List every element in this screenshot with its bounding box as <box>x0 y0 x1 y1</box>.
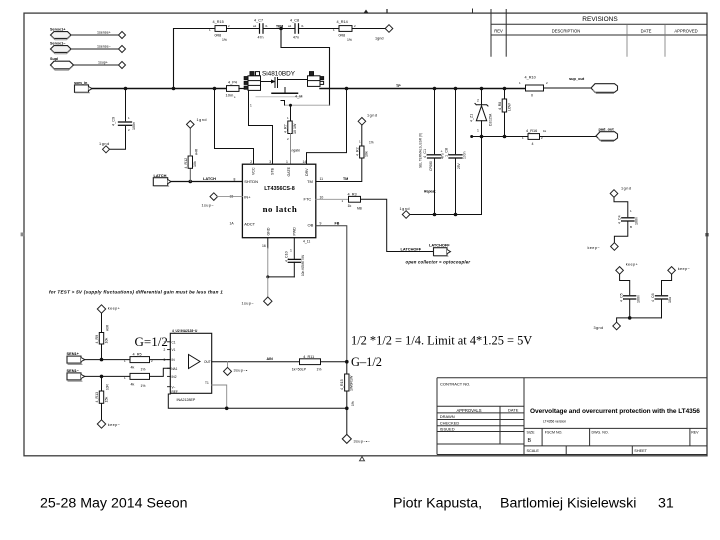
junction dot loop x226.7 <box>225 407 229 411</box>
svg-text:REV: REV <box>494 29 503 34</box>
wire ref stub right <box>212 385 227 408</box>
wire feedback loop bottom <box>168 394 346 408</box>
svg-text:4_C10: 4_C10 <box>285 251 289 262</box>
svg-text:1sup−: 1sup− <box>202 204 215 208</box>
svg-text:SHEET: SHEET <box>634 449 647 453</box>
svg-text:a1: a1 <box>253 24 257 28</box>
svg-text:1gnd: 1gnd <box>99 142 110 146</box>
svg-text:14: 14 <box>303 160 307 164</box>
svg-text:INA2128EP: INA2128EP <box>177 398 196 402</box>
svg-text:25V: 25V <box>457 162 461 169</box>
svg-text:CHECKED: CHECKED <box>440 420 460 425</box>
terminal diamond keep- right <box>668 267 691 275</box>
svg-text:4_R5: 4_R5 <box>133 352 142 356</box>
svg-text:10R: 10R <box>106 383 110 390</box>
resistor 4_R10 bus <box>519 75 548 97</box>
svg-text:LATCHOFF: LATCHOFF <box>401 246 422 251</box>
wire sense1- <box>71 48 119 50</box>
svg-text:OB: OB <box>308 223 314 228</box>
wire keep gnd rail <box>617 318 662 322</box>
svg-text:3sup−•: 3sup−• <box>234 369 248 373</box>
resistor 4_R5 <box>124 352 153 371</box>
terminal diamond keep- left <box>97 420 120 428</box>
wire supply <box>74 64 119 66</box>
wire zener to pad line and rail <box>481 121 483 215</box>
wire opamp output <box>212 361 300 363</box>
svg-text:1gnd: 1gnd <box>367 113 377 117</box>
op-amp U1 LT4356 box <box>242 164 315 238</box>
svg-text:10k: 10k <box>193 161 197 167</box>
svg-text:CONTRACT NO.: CONTRACT NO. <box>440 382 470 387</box>
transistor Q1 left pad block <box>244 72 260 91</box>
junction dot rail x455.5 <box>454 213 458 217</box>
junction dot keep rail <box>628 316 632 320</box>
svg-text:31: 31 <box>658 495 674 511</box>
svg-text:4: 4 <box>532 142 534 146</box>
svg-text:CP080: CP080 <box>429 161 433 171</box>
wire GND pin to 1sup- <box>267 277 269 297</box>
svg-text:1%: 1% <box>369 141 374 145</box>
svg-text:4_R14: 4_R14 <box>337 20 348 24</box>
junction dot latch <box>189 180 193 184</box>
svg-text:TPM: TPM <box>276 24 283 28</box>
wire C8 to R14 <box>299 28 340 30</box>
wire VCC feed <box>215 89 254 165</box>
svg-text:B: B <box>528 438 532 444</box>
svg-text:4_R15: 4_R15 <box>340 379 344 390</box>
resistor 4_R15 <box>209 20 230 42</box>
svg-text:r1: r1 <box>301 24 304 28</box>
svg-text:LT4356CS-8: LT4356CS-8 <box>264 186 294 192</box>
svg-text:ISSUED: ISSUED <box>440 426 455 431</box>
svg-text:keep−: keep− <box>108 423 121 427</box>
wire P4 to mosfet block <box>239 88 248 90</box>
svg-text:4_R12: 4_R12 <box>184 158 188 169</box>
svg-text:47n: 47n <box>258 36 264 40</box>
resistor 4_R12 <box>184 148 199 181</box>
svg-text:V−: V− <box>172 385 176 389</box>
svg-text:ngate: ngate <box>292 148 301 152</box>
capacitor 4_C5 <box>619 274 640 318</box>
svg-text:2: 2 <box>164 348 166 352</box>
wire FB <box>316 226 347 362</box>
svg-text:4_C9: 4_C9 <box>112 117 116 126</box>
zone tick left edge <box>21 233 25 237</box>
svg-text:ADCT: ADCT <box>244 221 255 226</box>
svg-text:B: B <box>630 225 632 229</box>
svg-text:3gnd: 3gnd <box>594 326 604 330</box>
resistor 4_R13 lower <box>95 376 110 419</box>
op-amp U2 instrumentation amp box <box>170 329 211 402</box>
op-amp pin stubs left <box>168 342 171 387</box>
sheet border frame <box>24 13 707 456</box>
resistor 4_R2 <box>355 125 373 158</box>
svg-text:4k: 4k <box>131 382 135 386</box>
junction dot bus x214 <box>213 87 217 91</box>
svg-text:10n KEMET/W: 10n KEMET/W <box>301 255 305 276</box>
svg-text:1gnd: 1gnd <box>197 118 207 122</box>
svg-text:3sup−•−: 3sup−•− <box>354 440 371 444</box>
svg-text:4_C7: 4_C7 <box>254 18 263 22</box>
wire R15 to C7 <box>227 28 259 30</box>
svg-text:TM: TM <box>343 177 348 181</box>
wire gate-drive riser <box>281 29 330 106</box>
zener diode 4_Z1 <box>469 99 492 133</box>
svg-text:4_R2: 4_R2 <box>355 147 359 156</box>
svg-text:4_R15: 4_R15 <box>213 20 224 24</box>
svg-text:10k: 10k <box>104 338 108 344</box>
svg-text:100n: 100n <box>132 122 136 130</box>
svg-text:4_R10: 4_R10 <box>525 75 536 79</box>
svg-text:1k: 1k <box>543 129 547 133</box>
wire C1 to rail <box>434 159 436 215</box>
svg-text:G–1/2: G–1/2 <box>351 355 382 369</box>
svg-text:APPROVALS: APPROVALS <box>456 408 481 413</box>
svg-text:1: 1 <box>290 249 292 253</box>
svg-text:a1: a1 <box>288 24 292 28</box>
svg-text:4_R13: 4_R13 <box>95 392 99 403</box>
resistor 4_R11 <box>292 355 322 371</box>
svg-text:SEN1−: SEN1− <box>67 368 80 373</box>
svg-text:10m: 10m <box>226 92 234 97</box>
transistor Q1 right pad block <box>308 72 324 87</box>
wire TM pin <box>316 158 362 182</box>
connector J3 supply <box>50 57 74 70</box>
resistor 4_R9 <box>95 313 110 359</box>
svg-text:FTC: FTC <box>304 197 312 202</box>
svg-text:2: 2 <box>250 160 252 164</box>
svg-text:DRAWN: DRAWN <box>440 414 455 419</box>
svg-text:no latch: no latch <box>263 204 298 214</box>
keep circuit right: terminal diamond 1gnd <box>610 187 631 198</box>
svg-text:Overvoltage and overcurrent pr: Overvoltage and overcurrent protection w… <box>530 408 700 415</box>
svg-text:AIN: AIN <box>267 357 274 361</box>
zone tick top center <box>364 9 388 13</box>
svg-text:1%: 1% <box>347 38 352 42</box>
wire R3 to latchoff <box>361 199 434 251</box>
wire FTC to R3 <box>316 198 349 200</box>
terminal diamond 1sense+ <box>119 32 126 39</box>
svg-text:4_C8: 4_C8 <box>290 18 299 22</box>
wire R5 to opamp <box>150 359 171 361</box>
wire R6 to opamp jog <box>150 368 171 376</box>
svg-text:11: 11 <box>320 177 324 181</box>
svg-text:1k=50LP: 1k=50LP <box>292 367 307 371</box>
capacitor 4_C4 <box>614 197 638 242</box>
wire OUT sense riser <box>307 89 347 165</box>
svg-text:1: 1 <box>286 160 288 164</box>
svg-text:GND: GND <box>266 227 270 235</box>
svg-text:1%: 1% <box>222 38 227 42</box>
terminal diamond 3sup- stub <box>224 362 248 376</box>
ground rail <box>410 214 481 216</box>
junction dot bus x434 <box>433 87 437 91</box>
svg-text:DESCRIPTION: DESCRIPTION <box>552 29 581 34</box>
svg-text:D2025A: D2025A <box>489 113 493 126</box>
resistor 4_R14 <box>333 20 356 42</box>
junction dot bus x455.5 <box>454 87 458 91</box>
svg-text:LATCH: LATCH <box>203 176 216 181</box>
svg-text:1/2 *1/2 = 1/4. Limit at 4*1.2: 1/2 *1/2 = 1/4. Limit at 4*1.25 = 5V <box>351 334 532 348</box>
svg-text:keep−: keep− <box>588 246 601 250</box>
wire R11 to FB rail <box>321 361 347 363</box>
transistor Q1 mosfet symbol <box>261 78 308 106</box>
svg-text:NA1: NA1 <box>171 367 177 371</box>
terminal diamond 1gnd rail <box>400 207 410 218</box>
svg-text:IN+: IN+ <box>244 194 251 199</box>
svg-text:STB: STB <box>270 167 274 175</box>
svg-text:DATE: DATE <box>508 407 519 412</box>
junction dot input1 <box>100 358 104 362</box>
junction dot gate node bottom <box>289 104 292 107</box>
wire to 3sup- bottom <box>346 408 348 434</box>
wire LATCH to SHTDN <box>171 181 242 183</box>
svg-text:SCALE: SCALE <box>527 449 540 453</box>
svg-text:1%: 1% <box>141 367 146 371</box>
wire C9 to gnd <box>110 127 126 150</box>
svg-text:16: 16 <box>262 244 266 248</box>
svg-text:4_C6: 4_C6 <box>651 293 655 302</box>
wire sense1+ <box>71 34 119 36</box>
junction dot output FB <box>345 360 349 364</box>
connector J2 sense1- <box>50 42 71 54</box>
junction dot gate node <box>279 27 283 31</box>
title block <box>437 378 707 455</box>
svg-text:4_R8: 4_R8 <box>498 102 502 110</box>
svg-text:REV: REV <box>691 430 699 434</box>
wire 1_C8 to rail <box>455 159 457 215</box>
IC pin names left <box>244 179 258 227</box>
svg-text:SHTDN: SHTDN <box>244 179 258 184</box>
terminal diamond 1gnd below bus <box>358 113 377 125</box>
svg-text:4_R7: 4_R7 <box>283 124 287 133</box>
svg-text:LATCH: LATCH <box>154 173 167 178</box>
connector pad_out <box>596 126 618 141</box>
junction dot loop x346.8 <box>345 407 349 411</box>
capacitor 4_C9 branch wire <box>125 89 127 121</box>
junction dot bus x481 <box>480 87 484 91</box>
terminal diamond 1sup IN+ <box>202 193 218 208</box>
svg-text:MB: MB <box>357 206 362 210</box>
IC pin names top rotated <box>251 166 308 176</box>
svg-text:LOW: LOW <box>507 102 511 111</box>
svg-text:0R8: 0R8 <box>215 34 222 38</box>
resistor 4_R3 <box>342 192 362 210</box>
svg-text:A4R: A4R <box>195 148 199 155</box>
svg-text:10u: 10u <box>668 297 672 303</box>
svg-text:pad_out: pad_out <box>599 126 615 131</box>
svg-text:1%: 1% <box>351 401 355 406</box>
capacitor 4_C10 under IC <box>266 238 305 279</box>
IC pin numbers <box>230 160 324 253</box>
svg-text:sup_out: sup_out <box>569 76 585 81</box>
svg-text:+: + <box>441 150 443 154</box>
svg-text:10k: 10k <box>365 151 369 157</box>
junction dot bus x346.5 <box>345 87 349 91</box>
svg-text:4_R11: 4_R11 <box>303 355 314 359</box>
resistor 4_R7 gate <box>283 105 297 141</box>
svg-text:Piotr Kapusta,: Piotr Kapusta, <box>393 495 482 511</box>
svg-text:1sense+: 1sense+ <box>97 31 111 35</box>
svg-text:100n: 100n <box>636 295 640 303</box>
transistor Q1 package gray line <box>256 96 302 98</box>
capacitor 1_C8 <box>445 148 467 169</box>
svg-text:4_R9: 4_R9 <box>95 335 99 344</box>
resistor 4_R15b FB divider <box>340 362 355 409</box>
connector SEN1+ plug <box>67 351 85 364</box>
connector SEN1- plug <box>67 368 85 381</box>
terminal diamond 1sup- <box>242 297 273 305</box>
svg-text:4_R16: 4_R16 <box>526 129 537 133</box>
svg-text:4_Z1: 4_Z1 <box>469 114 473 122</box>
wire gray gate feed <box>285 104 330 106</box>
svg-text:keep+: keep+ <box>626 263 639 267</box>
svg-text:3: 3 <box>269 160 271 164</box>
resistor 4_R8 branch <box>498 89 511 137</box>
svg-text:1gnd: 1gnd <box>375 37 383 41</box>
wire R7 to GATE pin gray <box>290 134 292 165</box>
terminal diamond keep+ left <box>97 305 120 313</box>
svg-text:SIZE: SIZE <box>527 430 536 434</box>
svg-text:4k: 4k <box>131 366 135 370</box>
svg-text:1sup+: 1sup+ <box>98 61 108 65</box>
connector LATCHOFF plug <box>429 243 451 257</box>
svg-text:25-28 May 2014 Seeon: 25-28 May 2014 Seeon <box>40 495 188 511</box>
capacitor 4_C7 <box>253 18 268 39</box>
svg-text:0R8: 0R8 <box>339 34 346 38</box>
terminal diamond 1gnd top chain <box>385 25 393 33</box>
svg-text:OUT: OUT <box>204 360 211 364</box>
svg-text:for TEST > 5V (supply fluctuat: for TEST > 5V (supply fluctuations) diff… <box>49 290 223 295</box>
svg-text:Supl: Supl <box>50 57 58 61</box>
svg-text:LATCHOFF: LATCHOFF <box>429 243 450 248</box>
terminal diamond keep+ right <box>616 263 639 275</box>
svg-text:1%: 1% <box>317 367 322 371</box>
terminal diamond 1gnd R12 <box>187 118 207 128</box>
zone tick bottom center <box>360 457 365 461</box>
svg-text:Si4810BDY: Si4810BDY <box>262 70 296 77</box>
svg-text:1gnd: 1gnd <box>621 187 631 191</box>
svg-text:V1: V1 <box>172 348 176 352</box>
svg-text:C1: C1 <box>172 340 176 344</box>
svg-text:IN2: IN2 <box>172 375 177 379</box>
svg-text:4_11: 4_11 <box>303 239 310 243</box>
svg-text:1: 1 <box>250 104 252 108</box>
svg-text:GATE: GATE <box>287 166 291 176</box>
SCHEMATIC CONTENT <box>49 18 691 443</box>
svg-text:r1: r1 <box>265 24 268 28</box>
connector sup_out <box>569 76 618 94</box>
capacitor 1_C8 branch <box>455 89 457 154</box>
svg-text:4_C4: 4_C4 <box>617 215 621 224</box>
svg-text:VCC: VCC <box>251 167 255 175</box>
svg-text:4_P4: 4_P4 <box>228 80 237 84</box>
wire main bus left <box>92 88 227 90</box>
svg-text:REF: REF <box>172 390 178 394</box>
svg-text:0: 0 <box>531 94 533 98</box>
terminal diamond 1sense- <box>119 46 126 53</box>
svg-text:LT4356 version: LT4356 version <box>543 419 566 423</box>
connector LATCH plug <box>153 173 171 186</box>
svg-text:DRV: DRV <box>305 168 309 176</box>
svg-text:T1: T1 <box>205 381 209 385</box>
junction dot input2 <box>100 375 104 379</box>
resistor 4_P4 sense <box>226 80 240 99</box>
svg-text:4_C5: 4_C5 <box>619 293 623 302</box>
svg-text:Sense1+: Sense1+ <box>50 28 66 32</box>
svg-text:3: 3 <box>164 358 166 362</box>
terminal diamond 3gnd <box>594 322 621 330</box>
svg-text:APPROVED: APPROVED <box>674 29 697 34</box>
svg-text:Sense1−: Sense1− <box>50 42 66 46</box>
junction dot bus x504.4 <box>503 87 507 91</box>
terminal diamond 3sup- bottom <box>342 434 370 443</box>
svg-text:1: 1 <box>164 340 166 344</box>
svg-text:47n: 47n <box>293 36 299 40</box>
wire IN+ <box>218 196 243 198</box>
op-amp pin numbers <box>164 340 211 394</box>
wire C7 to C8 with node <box>263 28 295 30</box>
svg-text:SEL TERMALS, ESR (V): SEL TERMALS, ESR (V) <box>419 133 423 168</box>
wire mosfet left block to SNS pin <box>249 90 273 164</box>
capacitor 4_C1 <box>423 149 445 171</box>
junction dot pad x504 <box>503 135 507 139</box>
wire pad_out line <box>472 136 528 138</box>
svg-text:1k: 1k <box>348 204 352 208</box>
svg-text:2: 2 <box>477 99 479 103</box>
zone tick right edge <box>705 233 708 236</box>
svg-text:1_C8: 1_C8 <box>445 148 449 157</box>
svg-text:4_R3: 4_R3 <box>348 192 357 196</box>
svg-text:TM: TM <box>307 179 313 184</box>
svg-text:1: 1 <box>477 128 479 132</box>
svg-text:open collector = optocoupler: open collector = optocoupler <box>406 260 471 265</box>
capacitor 4_C8 <box>288 18 304 39</box>
svg-text:10 1W: 10 1W <box>293 123 297 134</box>
svg-text:1%: 1% <box>141 384 146 388</box>
svg-text:1A: 1A <box>230 222 235 226</box>
svg-text:1W0R1W: 1W0R1W <box>350 375 354 391</box>
wire R12 to gnd diamond <box>189 128 191 156</box>
svg-text:4_M: 4_M <box>295 94 302 98</box>
junction dot bus x125 <box>124 87 128 91</box>
capacitor 4_C1 branch <box>434 89 436 154</box>
junction dot pad x481 <box>480 135 484 139</box>
svg-text:9: 9 <box>320 222 322 226</box>
svg-text:SEN1+: SEN1+ <box>67 351 80 356</box>
IC pin names right <box>304 179 314 228</box>
junction dot rail x434 <box>433 213 437 217</box>
svg-text:keep−: keep− <box>678 267 691 271</box>
svg-text:FB: FB <box>335 221 340 225</box>
resistor 4_R16 <box>522 129 547 146</box>
wire input1 <box>85 359 130 361</box>
svg-text:1sup−: 1sup− <box>242 301 255 305</box>
wire R14 to gnd diamond <box>352 28 385 30</box>
terminal diamond 1sup <box>119 62 126 69</box>
svg-text:keep+: keep+ <box>108 307 121 311</box>
resistor 4_R6 <box>124 373 150 388</box>
svg-text:TP: TP <box>396 84 401 88</box>
capacitor 4_C6 <box>651 274 672 318</box>
zener Z1 branch <box>481 89 483 105</box>
svg-text:1gnd: 1gnd <box>400 207 410 211</box>
wire R10 to sup_out <box>544 87 592 89</box>
terminal diamond keep- top <box>588 243 619 251</box>
svg-text:DWG. NO.: DWG. NO. <box>592 430 609 434</box>
wire input2 <box>85 375 130 377</box>
capacitor 4_C9 <box>112 116 137 132</box>
